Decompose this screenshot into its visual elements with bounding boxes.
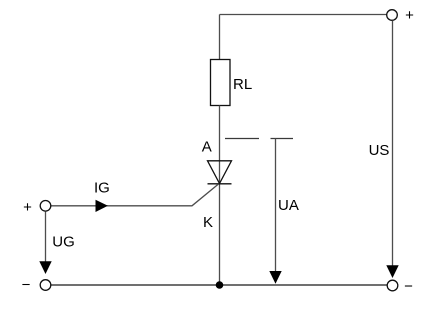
arrow UG head bbox=[39, 261, 51, 274]
node tick anode bbox=[225, 138, 259, 140]
arrow IG bbox=[96, 200, 108, 212]
resistor RL bbox=[211, 60, 231, 106]
svg-text:A: A bbox=[202, 139, 212, 156]
svg-text:+: + bbox=[23, 199, 32, 216]
wire top rail bbox=[220, 14, 387, 16]
svg-text:K: K bbox=[203, 214, 213, 231]
terminal circle top right bbox=[387, 10, 398, 21]
wire US (+ to −) bbox=[392, 21, 394, 267]
arrow US head bbox=[386, 265, 398, 278]
arrow UA head bbox=[269, 271, 281, 284]
terminal circle gate − bbox=[40, 280, 51, 291]
terminal circle gate + bbox=[40, 201, 51, 212]
terminal circle bottom right bbox=[387, 280, 398, 291]
svg-text:UA: UA bbox=[278, 197, 299, 214]
svg-text:−: − bbox=[404, 278, 413, 295]
UA reference bar bbox=[271, 138, 294, 140]
svg-text:US: US bbox=[369, 142, 390, 159]
svg-text:UG: UG bbox=[52, 234, 75, 251]
thyristor cathode bar bbox=[208, 183, 232, 185]
wire top rail to resistor bbox=[219, 15, 221, 60]
bottom rail bbox=[51, 284, 387, 286]
arrow UA stem bbox=[275, 139, 277, 273]
svg-text:+: + bbox=[405, 7, 414, 24]
junction node dot bbox=[216, 281, 224, 289]
svg-text:−: − bbox=[22, 277, 31, 294]
svg-text:IG: IG bbox=[94, 180, 110, 197]
svg-text:RL: RL bbox=[233, 76, 252, 93]
thyristor triangle bbox=[208, 161, 232, 184]
wire resistor to bottom rail (through thyristor) bbox=[219, 106, 221, 286]
gate wire bbox=[51, 184, 219, 206]
arrow UG stem bbox=[45, 212, 47, 263]
